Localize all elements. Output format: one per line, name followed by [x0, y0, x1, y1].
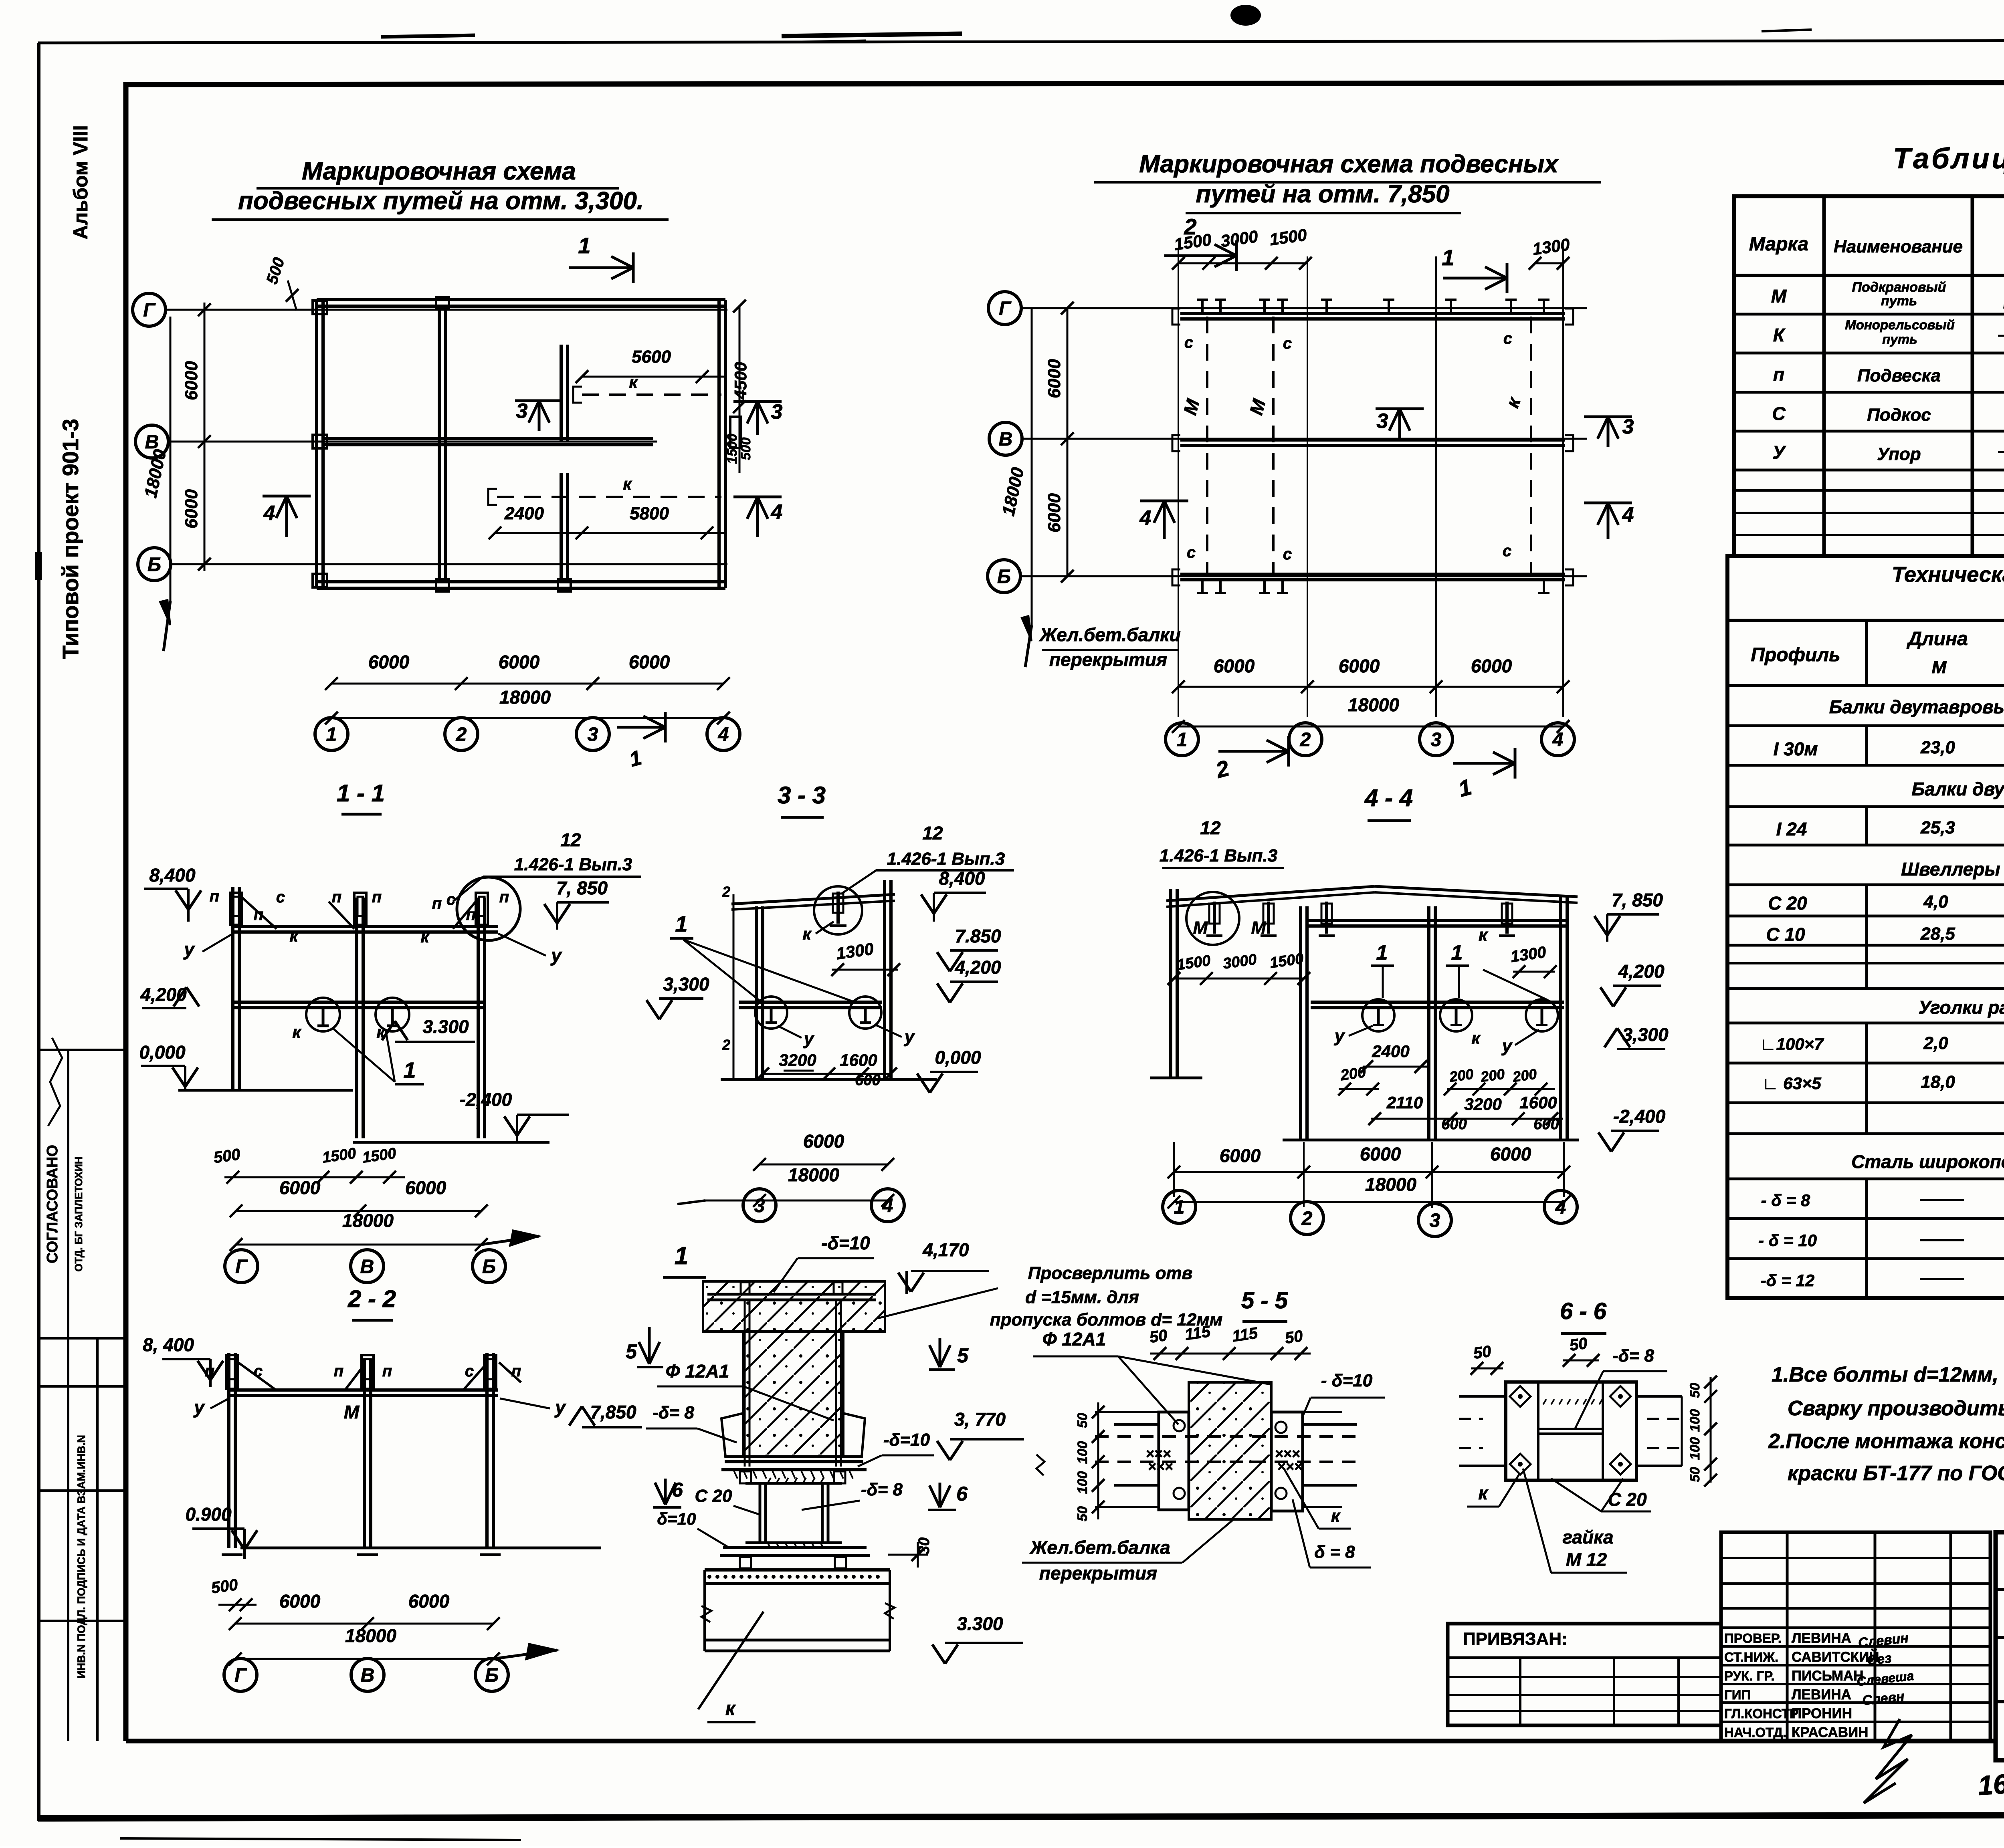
plan1 axis line Б	[171, 563, 727, 565]
s22 column bases	[222, 1553, 242, 1556]
svg-text:200: 200	[1448, 1065, 1475, 1085]
svg-text:5 - 5: 5 - 5	[1241, 1287, 1288, 1313]
svg-text:п: п	[334, 1362, 343, 1380]
table2 row I24	[1865, 807, 1868, 845]
plan2 axis circle Б	[988, 560, 1020, 593]
svg-text:к: к	[1331, 1506, 1341, 1526]
svg-text:6000: 6000	[629, 652, 670, 672]
svg-text:Швеллеры по ГОСТ 8240-72: Швеллеры по ГОСТ 8240-72	[1901, 859, 2004, 880]
svg-text:п: п	[1773, 364, 1784, 385]
outer frame left line	[37, 43, 40, 1821]
node1 bolts through concrete	[744, 1300, 746, 1467]
svg-text:С 10: С 10	[1766, 924, 1805, 945]
svg-text:50: 50	[1148, 1326, 1168, 1346]
svg-text:п: п	[332, 888, 341, 906]
plan1 left bottom arrow	[164, 601, 170, 651]
svg-text:В: В	[360, 1256, 374, 1277]
svg-text:50: 50	[1687, 1383, 1703, 1398]
svg-text:ПРИВЯЗАН:: ПРИВЯЗАН:	[1463, 1629, 1568, 1649]
d55 dashed center lines	[1095, 1435, 1363, 1438]
svg-text:3, 770: 3, 770	[954, 1409, 1006, 1430]
s33 hanger circles	[755, 997, 787, 1029]
s22 column left	[227, 1353, 230, 1548]
s44 basement line	[1283, 1139, 1579, 1142]
svg-text:2: 2	[1301, 1208, 1313, 1229]
svg-text:- δ = 10: - δ = 10	[1758, 1231, 1817, 1250]
svg-text:2: 2	[1300, 729, 1311, 750]
svg-text:-2,400: -2,400	[1613, 1106, 1666, 1127]
privyazan box	[1448, 1624, 1721, 1725]
svg-text:путей на отм. 7,850: путей на отм. 7,850	[1196, 180, 1449, 208]
svg-text:6000: 6000	[182, 361, 201, 400]
svg-text:1: 1	[1174, 1197, 1185, 1218]
plan1 interior wall axis В	[323, 437, 653, 440]
svg-text:Балки двутавровые по ГОСТ: Балки двутавровые по ГОСТ 8240-72	[1911, 779, 2004, 799]
svg-text:Подвеска: Подвеска	[1857, 366, 1941, 385]
svg-text:у: у	[904, 1027, 915, 1047]
svg-text:СОГЛАСОВАНО: СОГЛАСОВАНО	[44, 1145, 61, 1263]
svg-text:Г: Г	[234, 1665, 247, 1686]
svg-text:М: М	[1771, 286, 1787, 307]
svg-text:Монорельсовый: Монорельсовый	[1845, 317, 1955, 332]
table1 outer box	[1734, 196, 2004, 556]
plan2 beam Б	[1180, 573, 1565, 576]
svg-text:6000: 6000	[803, 1131, 844, 1152]
svg-text:6000: 6000	[1220, 1145, 1261, 1166]
svg-text:М: М	[1251, 918, 1267, 938]
svg-text:∟ 63×5: ∟ 63×5	[1762, 1074, 1821, 1093]
svg-text:п: п	[254, 906, 263, 924]
svg-text:5600: 5600	[632, 347, 671, 367]
svg-text:600: 600	[1441, 1116, 1467, 1133]
node1 label к with leader	[698, 1612, 764, 1709]
table2 outer box	[1727, 556, 2004, 1298]
svg-text:6000: 6000	[1044, 359, 1064, 398]
svg-text:Техническая спецификация стали: Техническая спецификация стали класса	[1892, 563, 2004, 587]
svg-text:×××: ×××	[1277, 1458, 1302, 1475]
svg-text:к: к	[629, 373, 638, 391]
svg-text:к: к	[292, 1023, 301, 1041]
s44 columns	[1169, 889, 1172, 1078]
svg-text:0.900: 0.900	[185, 1504, 232, 1525]
plan1 section mark 3 right	[756, 401, 759, 435]
svg-text:115: 115	[1184, 1323, 1212, 1344]
svg-text:к: к	[623, 474, 632, 493]
d55 beam lines left stub	[1095, 1411, 1159, 1413]
svg-text:Длина: Длина	[1906, 628, 1968, 650]
svg-text:3: 3	[1431, 729, 1442, 750]
svg-text:у: у	[803, 1029, 815, 1049]
svg-text:50: 50	[1568, 1334, 1588, 1354]
d66 channel outer box	[1506, 1382, 1636, 1480]
plan2 axis circle В	[989, 422, 1022, 455]
svg-text:Г: Г	[999, 298, 1012, 319]
plan2 axis line Б	[1020, 575, 1587, 577]
svg-text:6000: 6000	[1214, 656, 1255, 676]
svg-text:Жел.бет.балка: Жел.бет.балка	[1029, 1537, 1170, 1558]
svg-text:1: 1	[326, 724, 337, 745]
svg-text:5: 5	[957, 1344, 969, 1367]
svg-text:12: 12	[1200, 817, 1221, 838]
table2 empty rows	[1727, 962, 2004, 964]
d55 beam lines right stub	[1303, 1411, 1342, 1413]
svg-text:6000: 6000	[1490, 1144, 1531, 1164]
svg-text:0,000: 0,000	[935, 1047, 981, 1068]
svg-text:2400: 2400	[504, 504, 544, 523]
svg-text:Наименование: Наименование	[1834, 237, 1963, 256]
svg-text:к: к	[289, 926, 299, 945]
s11 hanger node circles	[306, 998, 340, 1031]
svg-text:18000: 18000	[1365, 1174, 1416, 1195]
svg-text:В: В	[361, 1665, 375, 1686]
plan1 axis circle Г	[133, 293, 166, 326]
node1 side gussets	[721, 1413, 743, 1457]
svg-text:4: 4	[1622, 503, 1634, 527]
svg-text:с: с	[465, 1362, 474, 1380]
svg-text:2: 2	[722, 884, 730, 900]
svg-text:12: 12	[922, 823, 943, 843]
s44 M node circle	[1186, 892, 1239, 945]
svg-text:п: п	[382, 1362, 392, 1380]
svg-text:Б: Б	[485, 1665, 499, 1686]
svg-text:с: с	[1184, 334, 1193, 351]
s44 hanger circles	[1362, 999, 1394, 1031]
node1 lower nuts	[740, 1557, 751, 1568]
svg-text:600: 600	[1533, 1116, 1559, 1133]
svg-text:7.850: 7.850	[955, 926, 1001, 946]
node1 lower plates	[723, 1546, 867, 1549]
svg-text:Профиль: Профиль	[1751, 644, 1840, 666]
svg-text:Подкос: Подкос	[1867, 405, 1931, 425]
svg-text:РУК. ГР.: РУК. ГР.	[1724, 1668, 1775, 1683]
svg-text:Альбом VIII: Альбом VIII	[69, 125, 92, 239]
svg-text:у: у	[193, 1397, 205, 1418]
plan2 hanger ticks on beam Г	[1201, 300, 1204, 313]
s22 column right	[485, 1353, 489, 1548]
node1 section marks 5	[648, 1327, 651, 1364]
svg-text:Б: Б	[997, 566, 1011, 587]
svg-text:Г: Г	[143, 300, 156, 321]
svg-text:4,170: 4,170	[922, 1239, 969, 1260]
svg-text:4,200: 4,200	[1618, 961, 1665, 982]
svg-text:путь: путь	[1881, 293, 1917, 309]
svg-text:18000: 18000	[342, 1210, 394, 1231]
svg-text:1.426-1 Вып.3: 1.426-1 Вып.3	[514, 855, 632, 874]
svg-text:Марка: Марка	[1749, 234, 1808, 255]
svg-text:1: 1	[1376, 941, 1388, 964]
s33 ground line	[721, 1078, 937, 1081]
node1 nuts below plate	[740, 1471, 751, 1483]
svg-text:0,000: 0,000	[139, 1042, 186, 1063]
svg-text:6: 6	[956, 1483, 968, 1505]
svg-text:3: 3	[1622, 415, 1634, 438]
table2 row L100x7	[1865, 1023, 1868, 1134]
svg-text:подвесных путей на отм. 3,300.: подвесных путей на отм. 3,300.	[238, 187, 644, 215]
svg-text:2 - 2: 2 - 2	[347, 1285, 396, 1312]
svg-text:гайка: гайка	[1562, 1527, 1613, 1547]
s44 roof line	[1166, 886, 1375, 901]
svg-text:4: 4	[1552, 729, 1564, 750]
svg-text:3: 3	[1430, 1210, 1440, 1231]
svg-text:8, 400: 8, 400	[143, 1334, 194, 1355]
svg-text:НАЧ.ОТД.: НАЧ.ОТД.	[1724, 1725, 1786, 1740]
svg-text:7, 850: 7, 850	[556, 878, 608, 898]
approval table box	[1721, 1532, 1990, 1741]
node1 slab bolts	[741, 1282, 749, 1294]
scan noise marks top	[381, 35, 475, 37]
svg-text:перекрытия: перекрытия	[1049, 649, 1167, 670]
svg-text:Сез: Сез	[1867, 1650, 1892, 1668]
plan2 section mark 4 right	[1607, 503, 1610, 539]
plan1 left dim line 6000/6000	[204, 303, 206, 571]
svg-text:к: к	[1479, 925, 1489, 945]
svg-text:6 - 6: 6 - 6	[1560, 1298, 1607, 1324]
svg-text:50: 50	[1284, 1327, 1304, 1347]
node1 monorail bottom flange	[705, 1639, 890, 1642]
plan2 dashed monorail M line 1	[1206, 317, 1208, 574]
s44 axis line stubs	[1173, 1142, 1175, 1197]
svg-text:с: с	[1283, 335, 1292, 352]
svg-text:7, 850: 7, 850	[1612, 890, 1663, 910]
s11 beam 7.850	[233, 925, 498, 928]
svg-text:перекрытия: перекрытия	[1039, 1563, 1157, 1584]
svg-text:3: 3	[1377, 410, 1388, 433]
svg-text:200: 200	[1511, 1065, 1538, 1085]
plan1 monorail К lower dashed	[497, 496, 721, 498]
svg-text:с: с	[254, 1362, 263, 1380]
svg-text:1: 1	[578, 233, 590, 258]
svg-text:3200: 3200	[1464, 1095, 1501, 1114]
svg-text:Уголки равнополочные по ГОСТ: Уголки равнополочные по ГОСТ 8509-72	[1919, 997, 2004, 1018]
plan1 bottom wall	[317, 580, 725, 583]
svg-text:5: 5	[626, 1340, 637, 1363]
d66 mid web lines	[1538, 1428, 1603, 1430]
svg-text:6000: 6000	[1360, 1144, 1401, 1164]
svg-text:2.После монтажа конструкции: 2.После монтажа конструкции окрасить 2-м…	[1768, 1430, 2004, 1453]
svg-text:с: с	[1283, 545, 1292, 563]
plan1 top wall	[317, 298, 725, 301]
svg-text:18000: 18000	[1348, 694, 1399, 715]
plan1 right wall	[717, 300, 721, 588]
svg-text:18000: 18000	[788, 1164, 839, 1185]
node1 monorail beam top flange	[705, 1568, 890, 1572]
plan2 axis bubbles 1-4	[1166, 723, 1198, 756]
plan2 hanger ticks on beam Б	[1201, 580, 1204, 593]
svg-text:25,3: 25,3	[1920, 818, 1955, 837]
node1 break marks	[701, 1606, 711, 1622]
svg-text:6000: 6000	[368, 652, 410, 672]
plan2 axis line В	[1022, 438, 1587, 440]
svg-text:-δ= 8: -δ= 8	[653, 1403, 694, 1422]
svg-text:6000: 6000	[1339, 656, 1380, 676]
svg-text:с: с	[1187, 544, 1196, 561]
svg-text:18000: 18000	[345, 1625, 396, 1646]
table2 empty row	[1727, 1132, 2004, 1135]
svg-text:100: 100	[1687, 1437, 1703, 1460]
svg-text:ГИП: ГИП	[1724, 1687, 1751, 1702]
svg-text:к: к	[420, 927, 430, 946]
plan2 dashed monorail K line	[1530, 317, 1532, 574]
svg-text:200: 200	[1339, 1064, 1367, 1084]
svg-text:Г: Г	[235, 1256, 248, 1277]
svg-text:ЛЕВИНА: ЛЕВИНА	[1792, 1687, 1851, 1703]
svg-text:М: М	[344, 1402, 360, 1422]
svg-text:п: п	[511, 1362, 521, 1380]
svg-text:6000: 6000	[279, 1591, 321, 1612]
svg-text:Б: Б	[482, 1256, 496, 1277]
svg-text:Ф 12А1: Ф 12А1	[666, 1361, 729, 1382]
svg-text:у: у	[183, 939, 195, 960]
s33 columns	[755, 906, 758, 1079]
s11 column middle	[355, 898, 358, 1138]
svg-text:3.300: 3.300	[422, 1016, 469, 1037]
s44 beam 3.300	[1311, 1001, 1564, 1004]
svg-text:50: 50	[1687, 1467, 1703, 1482]
svg-text:4: 4	[263, 502, 275, 525]
svg-text:Сталь широкополосная универс: Сталь широкополосная универсальная по ГО…	[1851, 1151, 2004, 1172]
svg-text:18,0: 18,0	[1921, 1072, 1955, 1092]
node1 concrete column hatched	[743, 1332, 843, 1457]
svg-text:к: к	[376, 1023, 386, 1041]
plan2 axis circle Г	[988, 292, 1021, 325]
plan1 bottom section arrow 1	[617, 726, 665, 729]
svg-text:1600: 1600	[840, 1051, 877, 1069]
svg-text:3 - 3: 3 - 3	[778, 782, 826, 809]
svg-text:200: 200	[1479, 1065, 1506, 1085]
plan1 monorail К upper dashed	[582, 393, 721, 396]
svg-text:3.300: 3.300	[957, 1613, 1003, 1634]
s11 top posts п	[230, 893, 242, 925]
svg-text:Жел.бет.балки: Жел.бет.балки	[1039, 624, 1180, 645]
svg-text:Маркировочная схема: Маркировочная схема	[302, 157, 576, 185]
svg-text:Сварку производить электрода: Сварку производить электродами Э-42А, ГО…	[1788, 1397, 2004, 1420]
svg-text:8,400: 8,400	[939, 868, 985, 889]
s33 left storey dim line	[733, 894, 735, 1079]
svg-text:ГЛ.КОНСТР: ГЛ.КОНСТР	[1724, 1706, 1798, 1721]
plan2 beam Г	[1180, 312, 1565, 315]
svg-text:1.426-1 Вып.3: 1.426-1 Вып.3	[887, 849, 1005, 869]
s11 ground line	[178, 1089, 353, 1092]
svg-text:К: К	[1773, 325, 1786, 345]
svg-text:4,200: 4,200	[954, 957, 1001, 978]
svg-text:М: М	[1193, 918, 1208, 938]
plan1 interior wall axis3 lower	[560, 473, 563, 582]
svg-text:- δ=10: - δ=10	[1321, 1371, 1373, 1390]
svg-text:1: 1	[1177, 729, 1188, 750]
outer frame bottom smudge line	[38, 1814, 2004, 1818]
title block outer	[1996, 1532, 2004, 1760]
svg-text:50: 50	[1472, 1342, 1492, 1362]
svg-text:п: п	[466, 906, 476, 924]
svg-text:28,5: 28,5	[1920, 924, 1955, 944]
node1 base plate upper	[725, 1460, 863, 1463]
svg-text:115: 115	[1231, 1324, 1259, 1346]
svg-text:1: 1	[1442, 245, 1454, 270]
svg-text:к: к	[725, 1698, 736, 1719]
main drawing border top	[126, 82, 2004, 85]
svg-text:6000: 6000	[499, 652, 540, 672]
svg-text:- δ = 8: - δ = 8	[1761, 1191, 1810, 1210]
svg-text:2: 2	[722, 1037, 730, 1053]
svg-text:7,850: 7,850	[590, 1402, 636, 1422]
svg-text:Упор: Упор	[1877, 444, 1921, 464]
svg-text:у: у	[554, 1397, 566, 1418]
svg-text:С 20: С 20	[695, 1486, 732, 1506]
svg-text:у: у	[1501, 1036, 1513, 1056]
svg-text:п: п	[372, 888, 382, 906]
plan1 axis line В	[168, 441, 657, 443]
plan2 bottom section mark 2	[1218, 750, 1289, 753]
svg-text:-δ=10: -δ=10	[821, 1233, 870, 1253]
svg-text:с: с	[1503, 330, 1512, 347]
plan1 section mark 4 right	[756, 497, 759, 537]
svg-text:500: 500	[210, 1576, 239, 1597]
plan2 section mark 3 right	[1607, 417, 1610, 447]
s11 column right	[477, 898, 480, 1138]
svg-text:50: 50	[1075, 1413, 1090, 1428]
d66 beam stub left	[1459, 1395, 1506, 1398]
svg-text:-δ = 12: -δ = 12	[1761, 1271, 1814, 1290]
svg-text:У: У	[1772, 442, 1786, 463]
svg-text:ПРОВЕР.: ПРОВЕР.	[1724, 1631, 1782, 1646]
svg-text:-δ=10: -δ=10	[883, 1430, 930, 1450]
svg-text:Просверлить отв: Просверлить отв	[1028, 1263, 1192, 1283]
svg-text:ПРОНИН: ПРОНИН	[1792, 1706, 1852, 1721]
svg-text:ПИСЬМАН: ПИСЬМАН	[1792, 1668, 1864, 1684]
svg-text:п: п	[499, 888, 509, 906]
svg-text:6000: 6000	[405, 1177, 446, 1198]
table2 row C20	[1865, 885, 1868, 963]
svg-text:у: у	[550, 945, 562, 966]
s11 axis bubbles Г В Б	[225, 1250, 258, 1283]
svg-text:3: 3	[754, 1195, 765, 1217]
d66 diamonds (bolts)	[1510, 1386, 1531, 1407]
svg-text:18000: 18000	[499, 687, 551, 708]
svg-text:к: к	[1471, 1029, 1481, 1047]
svg-text:100: 100	[1687, 1409, 1703, 1432]
svg-text:краски БТ-177 по ГОСТ 5631: краски БТ-177 по ГОСТ 5631-70*	[1788, 1462, 2004, 1485]
table1 row lines	[1734, 313, 2004, 316]
table2 row b8	[1865, 1179, 1868, 1298]
svg-text:С 20: С 20	[1768, 893, 1807, 914]
svg-text:1: 1	[675, 911, 687, 936]
plan2 bottom section mark 1	[1453, 762, 1515, 765]
svg-text:1: 1	[1451, 941, 1463, 964]
svg-text:1 - 1: 1 - 1	[337, 780, 385, 807]
plan2 left dim lines	[1067, 308, 1069, 576]
d55 concrete block	[1189, 1382, 1271, 1519]
svg-text:4: 4	[771, 500, 783, 524]
svg-text:с: с	[1503, 542, 1511, 560]
svg-text:3,300: 3,300	[1622, 1024, 1669, 1045]
svg-text:2400: 2400	[1372, 1042, 1409, 1061]
svg-text:3: 3	[771, 400, 783, 424]
s33 axis bubbles 3 4	[743, 1189, 776, 1222]
sidebar divider lines	[39, 1049, 126, 1051]
svg-text:-δ= 8: -δ= 8	[861, 1480, 903, 1499]
svg-text:В: В	[999, 429, 1013, 450]
d55 break mark 2	[1036, 1455, 1044, 1475]
sidebar signature squiggle	[48, 1038, 62, 1126]
svg-text:к: к	[802, 924, 812, 943]
s33 node circle with bolt	[814, 886, 862, 934]
svg-text:1.426-1 Вып.3: 1.426-1 Вып.3	[1160, 846, 1277, 865]
s22 top posts	[226, 1355, 238, 1389]
svg-text:6000: 6000	[408, 1591, 450, 1612]
svg-text:12: 12	[560, 829, 581, 850]
s11 big node circle	[457, 877, 520, 940]
svg-text:4: 4	[718, 724, 729, 745]
